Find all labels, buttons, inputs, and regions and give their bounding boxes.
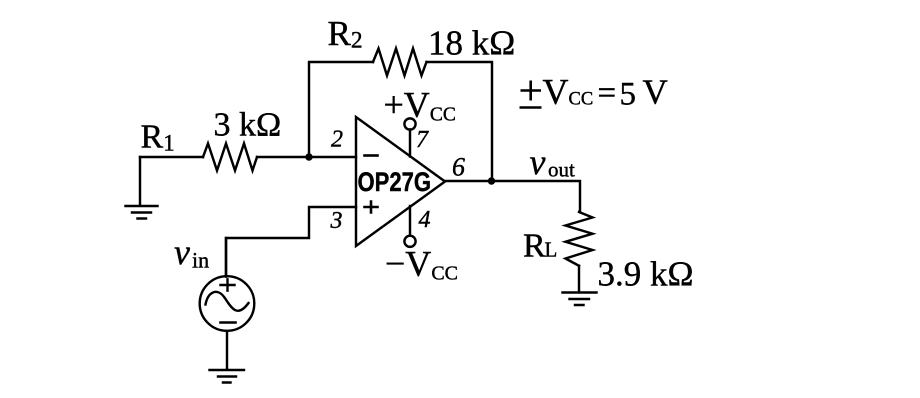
svg-text:out: out [548,158,575,182]
svg-text:R2: R2 [328,14,363,54]
resistor R1 [203,144,257,171]
svg-text:18 kΩ: 18 kΩ [428,24,515,63]
svg-text:v: v [174,232,190,272]
svg-text:=: = [598,76,617,112]
wire input left segment [140,156,203,158]
wire output [445,181,580,212]
svg-text:v: v [530,142,546,182]
svg-text:3 kΩ: 3 kΩ [214,107,282,144]
svg-text:4: 4 [419,207,431,233]
source sine symbol [206,292,249,311]
wire vin to ground [226,331,228,369]
wire pin 3 from vin [226,207,356,277]
svg-text:+VCC: +VCC [384,85,456,126]
node A summing junction [305,153,312,160]
wire R1 left to ground [139,157,141,205]
node vout junction [488,177,495,184]
svg-text:L: L [545,238,558,262]
ground under vin [210,370,245,383]
source V1 vin [200,276,255,331]
svg-text:−VCC: −VCC [385,244,458,285]
pin 7 lead [409,130,411,157]
svg-text:6: 6 [452,153,465,182]
ground under R1 [126,206,158,219]
label +/-VCC = 5 V [520,81,542,108]
resistor R2 [373,49,427,76]
op-amp U1 [356,117,445,246]
op-amp minus input symbol [365,154,378,157]
svg-text:7: 7 [416,127,429,153]
svg-text:R: R [523,228,546,265]
svg-text:V: V [643,73,668,112]
pin 4 lead [409,206,411,236]
svg-text:3.9 kΩ: 3.9 kΩ [598,255,694,294]
svg-text:CC: CC [569,90,594,110]
op-amp plus input symbol [365,202,378,213]
resistor RL [566,212,593,266]
wire feedback right and down [427,62,493,181]
svg-text:5: 5 [620,77,637,113]
wire feedback up and left [309,62,373,157]
svg-text:3: 3 [330,208,343,234]
svg-text:OP27G: OP27G [358,167,432,197]
wire RL to ground [578,266,580,292]
source minus polarity [221,321,236,324]
svg-text:2: 2 [331,127,343,153]
svg-text:in: in [192,248,209,273]
pin 4 terminal [404,236,415,247]
ground under RL [563,293,597,306]
pin 7 terminal [404,118,415,129]
svg-text:R1: R1 [141,119,175,156]
wire vin top lead [225,238,227,277]
wire R1 to inverting input [257,156,356,158]
source plus polarity [221,279,235,290]
svg-text:V: V [543,72,569,112]
